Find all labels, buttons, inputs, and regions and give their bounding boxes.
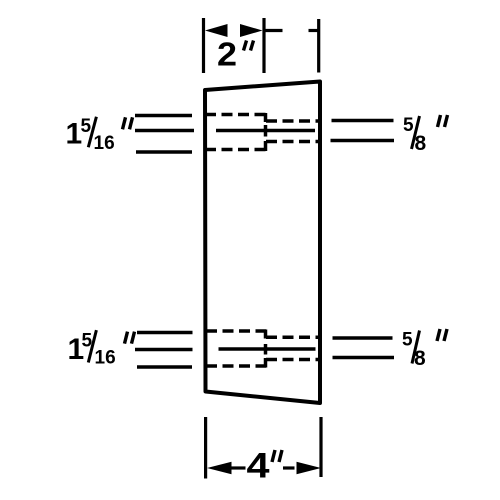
svg-text:4: 4 <box>247 447 271 486</box>
svg-text:8: 8 <box>415 132 427 155</box>
svg-text:16: 16 <box>94 133 115 154</box>
svg-text:5: 5 <box>403 115 414 136</box>
svg-text:16: 16 <box>95 347 116 368</box>
svg-text:5: 5 <box>81 116 92 137</box>
svg-text:5: 5 <box>402 330 413 351</box>
svg-text:2: 2 <box>217 36 237 73</box>
svg-text:8: 8 <box>414 347 426 370</box>
